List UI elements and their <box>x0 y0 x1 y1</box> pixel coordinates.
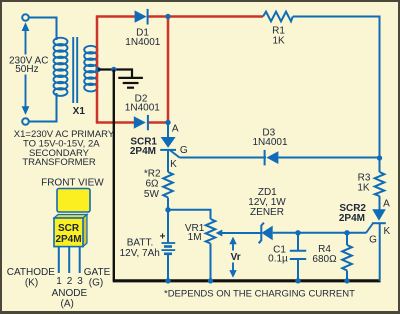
bottom rail wire <box>113 279 381 282</box>
terminal bottom-left <box>22 118 29 125</box>
svg-text:K: K <box>170 159 177 170</box>
wire red D1 to R1 <box>148 15 264 18</box>
node dot VR1 rail <box>208 278 213 283</box>
svg-text:G: G <box>369 235 377 246</box>
svg-text:FRONT VIEW: FRONT VIEW <box>41 177 104 188</box>
node junction dot <box>377 155 382 160</box>
SCR package pin 1 <box>58 247 60 273</box>
terminal top-left <box>22 14 29 21</box>
svg-text:CATHODE: CATHODE <box>7 267 55 278</box>
potentiometer VR1 <box>206 219 216 244</box>
svg-text:Vr: Vr <box>231 252 241 263</box>
SCR package body <box>54 215 87 247</box>
node dot C1 rail <box>295 278 300 283</box>
SCR package pin 3 <box>79 247 81 273</box>
resistor R2 <box>163 172 173 198</box>
svg-text:G: G <box>180 145 188 156</box>
SCR package tab <box>57 189 90 213</box>
diode D1 <box>135 9 148 25</box>
svg-text:50Hz: 50Hz <box>15 64 38 75</box>
wire C1 bottom to rail <box>297 259 299 281</box>
node A junction dot top <box>165 14 170 19</box>
svg-text:1: 1 <box>56 276 62 287</box>
svg-text:1M: 1M <box>188 232 202 243</box>
wire R3 to SCR2 <box>379 196 381 210</box>
svg-text:A: A <box>383 198 390 209</box>
wire SCR1 cathode to R2 <box>167 150 169 172</box>
transformer X1 secondary winding <box>84 46 97 92</box>
svg-text:2P4M: 2P4M <box>55 234 81 245</box>
wire R4 top <box>346 233 348 245</box>
wire red bottom to D2 <box>96 121 134 124</box>
svg-text:1N4001: 1N4001 <box>125 102 160 113</box>
wire red D2 to node A <box>148 121 169 124</box>
wire SCR1 gate to D3 <box>180 157 267 159</box>
svg-text:(A): (A) <box>61 299 74 310</box>
wire R1 to right rail <box>293 17 380 159</box>
svg-text:2P4M: 2P4M <box>339 213 365 224</box>
svg-text:1K: 1K <box>272 36 285 47</box>
svg-text:ANODE: ANODE <box>52 288 88 299</box>
wire node to VR1 <box>168 210 211 219</box>
node center tap <box>95 67 100 72</box>
resistor R1 <box>263 12 293 22</box>
svg-text:K: K <box>383 226 390 237</box>
node A junction dot <box>165 120 170 125</box>
svg-text:2P4M: 2P4M <box>130 146 156 157</box>
svg-text:BATT.: BATT. <box>127 238 153 249</box>
wire C1 top <box>297 233 299 251</box>
wire red top to D1 <box>96 15 135 18</box>
svg-text:*DEPENDS ON THE CHARGING CURRE: *DEPENDS ON THE CHARGING CURRENT <box>164 288 355 299</box>
Vr measurement arrow <box>229 237 236 278</box>
wire node A to SCR1 <box>167 123 169 139</box>
svg-text:(G): (G) <box>89 278 103 289</box>
wire black center tap down to rail <box>113 70 115 281</box>
wire SCR2 cathode down to rail <box>379 223 381 281</box>
SCR package pin 2 <box>68 247 70 273</box>
zener ZD1 <box>259 223 273 244</box>
wire R4 bottom to rail <box>346 271 348 282</box>
SCR2 <box>366 209 386 232</box>
wire battery to rail <box>167 254 169 281</box>
svg-text:ZENER: ZENER <box>250 207 284 218</box>
svg-text:X1: X1 <box>73 106 86 117</box>
svg-text:GATE: GATE <box>84 267 111 278</box>
capacitor C1 <box>290 251 306 259</box>
wire center tap black <box>98 70 132 78</box>
ground <box>118 78 143 88</box>
wire VR1 to rail <box>210 244 212 282</box>
svg-text:TRANSFORMER: TRANSFORMER <box>22 157 96 168</box>
wire <box>29 93 57 122</box>
svg-text:1N4001: 1N4001 <box>125 37 160 48</box>
transformer X1 primary winding <box>54 38 68 96</box>
SCR1 <box>160 137 179 158</box>
wire R2 to battery node <box>167 198 169 244</box>
node dot C1 top <box>295 230 300 235</box>
svg-text:5W: 5W <box>144 189 160 200</box>
svg-text:2: 2 <box>67 276 73 287</box>
svg-text:1N4001: 1N4001 <box>252 137 287 148</box>
svg-text:6Ω: 6Ω <box>145 178 159 189</box>
node dot R4 rail <box>344 278 349 283</box>
svg-text:SCR: SCR <box>58 223 80 234</box>
node dot battery rail <box>165 278 170 283</box>
diode D3 <box>265 150 279 166</box>
svg-text:12V, 7Ah: 12V, 7Ah <box>120 248 160 259</box>
svg-text:1K: 1K <box>357 183 370 194</box>
wire to R3 <box>379 158 381 172</box>
wire <box>29 18 57 41</box>
node dot R4 top <box>344 230 349 235</box>
diode D2 <box>134 115 148 130</box>
resistor R4 <box>342 245 352 271</box>
wire D3 to right rail <box>278 157 379 159</box>
transformer core <box>72 37 74 103</box>
resistor R3 <box>375 172 385 196</box>
svg-text:A: A <box>172 124 179 135</box>
VR1 wiper arrow <box>216 230 261 237</box>
230V AC double arrow <box>22 22 30 115</box>
battery BATT <box>162 243 176 254</box>
wire red secondary left rail <box>96 17 99 123</box>
junction dot <box>111 67 116 72</box>
svg-text:680Ω: 680Ω <box>312 254 337 265</box>
svg-text:+: + <box>160 231 166 242</box>
wire ZD1 to SCR2 gate <box>273 232 367 234</box>
svg-text:0.1µ: 0.1µ <box>268 254 288 265</box>
wire red right rail down to node A <box>167 17 170 123</box>
node junction dot R2/VR1/battery <box>165 207 170 212</box>
svg-text:3: 3 <box>77 276 83 287</box>
svg-text:(K): (K) <box>25 277 38 288</box>
